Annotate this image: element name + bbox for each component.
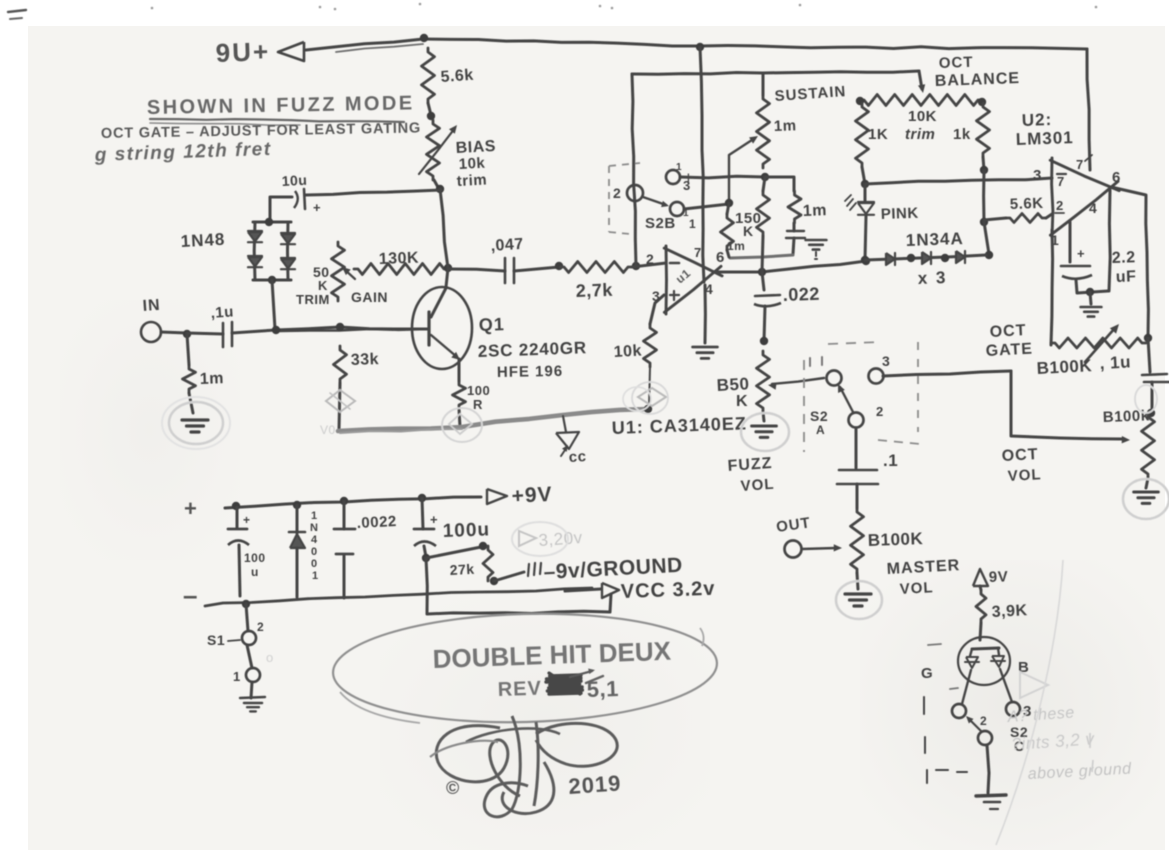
svg-text:27k: 27k	[449, 561, 475, 578]
svg-text:o: o	[266, 650, 274, 665]
svg-text:B100K: B100K	[867, 529, 923, 550]
svg-text:1K: 1K	[868, 126, 888, 143]
svg-text:GAIN: GAIN	[351, 289, 388, 305]
svg-text:1: 1	[312, 570, 319, 582]
svg-text:+: +	[1077, 246, 1085, 261]
svg-text:S2: S2	[810, 408, 828, 424]
svg-text:U1: CA3140EZ: U1: CA3140EZ	[611, 413, 747, 438]
svg-text:HFE 196: HFE 196	[497, 363, 563, 381]
svg-text:2SC 2240GR: 2SC 2240GR	[477, 338, 587, 361]
svg-text:5.6K: 5.6K	[1010, 195, 1044, 213]
svg-text:0: 0	[311, 558, 318, 570]
svg-text:130K: 130K	[379, 250, 420, 268]
svg-text:©: ©	[446, 778, 460, 798]
svg-text:,047: ,047	[490, 236, 524, 255]
svg-text:x 3: x 3	[917, 268, 947, 288]
svg-text:SHOWN IN FUZZ MODE: SHOWN IN FUZZ MODE	[147, 92, 415, 119]
svg-text:V0: V0	[320, 423, 336, 437]
svg-text:1k: 1k	[953, 126, 971, 143]
svg-text:Q1: Q1	[478, 314, 505, 335]
svg-text:1: 1	[311, 510, 318, 522]
svg-text:G: G	[921, 665, 933, 682]
svg-text:1N34A: 1N34A	[905, 229, 964, 250]
svg-text:7: 7	[1076, 157, 1084, 172]
svg-text:2,7k: 2,7k	[575, 280, 613, 301]
svg-text:trim: trim	[456, 171, 487, 190]
svg-text:9U+: 9U+	[215, 36, 270, 68]
svg-text:B100K: B100K	[1036, 356, 1093, 378]
svg-text:3,9K: 3,9K	[991, 602, 1028, 621]
svg-text:VOL: VOL	[740, 476, 775, 495]
svg-text:VCC 3.2v: VCC 3.2v	[620, 578, 715, 603]
svg-text:2: 2	[613, 185, 621, 201]
svg-text:1: 1	[676, 162, 682, 173]
svg-text:OCT: OCT	[989, 322, 1027, 341]
svg-text:7: 7	[1057, 174, 1065, 189]
svg-text:uF: uF	[1116, 268, 1137, 286]
svg-text:+: +	[184, 496, 197, 521]
svg-text:10k: 10k	[458, 155, 486, 173]
svg-text:N: N	[310, 522, 318, 534]
svg-text:4: 4	[311, 534, 318, 546]
svg-text:4: 4	[1089, 200, 1097, 216]
svg-text:PINK: PINK	[881, 205, 919, 223]
svg-text:cc: cc	[568, 448, 587, 466]
svg-text:+: +	[313, 200, 321, 215]
svg-text:10k: 10k	[613, 343, 642, 361]
svg-text:R: R	[473, 397, 483, 412]
svg-text:IN: IN	[142, 297, 161, 315]
svg-text:5.6k: 5.6k	[440, 67, 474, 86]
svg-text:B50: B50	[716, 374, 750, 395]
svg-text:K: K	[743, 223, 754, 239]
svg-text:1m: 1m	[200, 370, 225, 388]
svg-text:u1: u1	[673, 266, 694, 286]
svg-text:0: 0	[311, 546, 318, 558]
svg-text:OUT: OUT	[775, 514, 812, 536]
svg-text:,1u: ,1u	[210, 303, 234, 322]
svg-text:2: 2	[980, 714, 987, 728]
svg-text:OCT: OCT	[939, 54, 974, 72]
svg-text:6: 6	[1112, 169, 1121, 186]
svg-text:1m: 1m	[727, 239, 745, 253]
svg-text:g string 12th fret: g string 12th fret	[93, 139, 272, 166]
svg-text:, 1u: , 1u	[1099, 352, 1131, 373]
svg-text:FUZZ: FUZZ	[727, 455, 773, 475]
svg-text:B100k: B100k	[1103, 407, 1150, 426]
svg-text:100u: 100u	[442, 519, 490, 542]
svg-text:+: +	[430, 512, 438, 527]
svg-text:K: K	[318, 278, 328, 293]
svg-text:LM301: LM301	[1015, 128, 1074, 149]
svg-text:TRIM: TRIM	[296, 292, 330, 307]
svg-text:2: 2	[257, 620, 264, 634]
svg-text:1m: 1m	[774, 117, 797, 135]
svg-text:33k: 33k	[351, 351, 380, 369]
svg-text:2: 2	[1056, 198, 1064, 213]
svg-text:U2:: U2:	[1021, 110, 1052, 130]
svg-text:S1: S1	[207, 632, 225, 648]
svg-text:100: 100	[467, 383, 490, 398]
svg-text:+9V: +9V	[511, 483, 553, 508]
svg-text:BALANCE: BALANCE	[935, 70, 1021, 90]
svg-text:3,20v: 3,20v	[538, 528, 583, 550]
svg-text:1m: 1m	[803, 202, 828, 220]
svg-text:9V: 9V	[989, 568, 1009, 586]
svg-text:7: 7	[694, 245, 702, 260]
svg-text:100: 100	[244, 551, 266, 565]
svg-text:2: 2	[646, 251, 654, 267]
svg-text:2.2: 2.2	[1112, 249, 1136, 267]
svg-text:+: +	[243, 513, 251, 527]
svg-text:1: 1	[689, 217, 696, 231]
svg-text:VOL: VOL	[899, 579, 934, 598]
svg-text:1: 1	[233, 669, 241, 684]
svg-text:10K: 10K	[908, 108, 937, 125]
svg-text:–: –	[183, 580, 198, 610]
svg-text:.022: .022	[782, 284, 820, 305]
svg-text:VOL: VOL	[1007, 466, 1042, 485]
svg-text:K: K	[736, 393, 748, 410]
svg-text:S2B: S2B	[645, 215, 676, 232]
svg-text:OCT: OCT	[1001, 446, 1039, 465]
svg-text:.1: .1	[883, 451, 898, 470]
svg-text:2: 2	[876, 404, 884, 419]
svg-text:2019: 2019	[568, 770, 623, 799]
svg-text:.0022: .0022	[356, 513, 397, 532]
svg-text:3: 3	[652, 288, 660, 304]
svg-text:SUSTAIN: SUSTAIN	[774, 83, 847, 105]
svg-text:A: A	[816, 423, 825, 437]
svg-text:3: 3	[882, 353, 890, 369]
svg-text:REV: REV	[497, 677, 542, 701]
svg-text:GATE: GATE	[985, 341, 1033, 360]
svg-text:10u: 10u	[281, 172, 307, 189]
svg-text:trim: trim	[905, 126, 935, 143]
svg-text:3: 3	[1033, 167, 1042, 184]
svg-text:6: 6	[716, 249, 725, 266]
svg-text:1N48: 1N48	[180, 230, 226, 251]
svg-text:u: u	[251, 565, 259, 579]
